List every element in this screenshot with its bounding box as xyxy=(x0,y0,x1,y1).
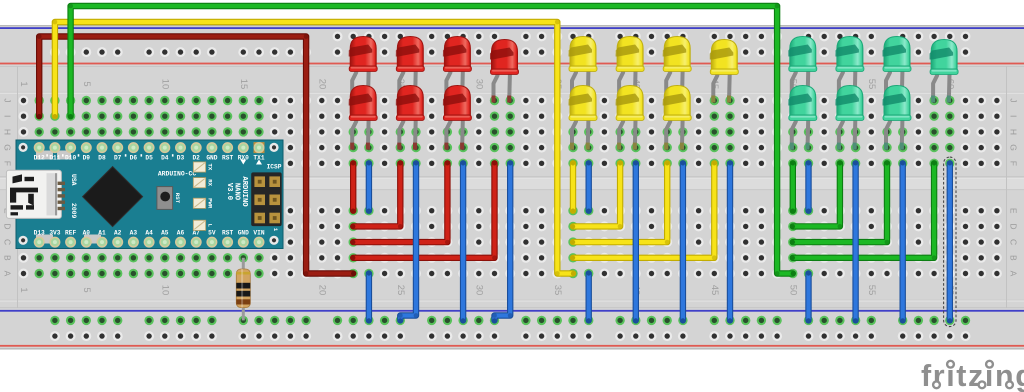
LED yellow 2 top (cols 39/40) xyxy=(616,37,645,103)
U1 pin pads row C (bottom) xyxy=(34,237,263,247)
svg-text:USA: USA xyxy=(70,174,77,186)
LED green 2 top (cols 53/54) xyxy=(835,37,864,103)
svg-text:C: C xyxy=(3,239,13,245)
svg-text:D12: D12 xyxy=(34,155,45,162)
svg-text:A5: A5 xyxy=(161,230,169,237)
svg-text:B: B xyxy=(1009,255,1019,261)
U1 reset button SW1 xyxy=(157,187,181,210)
svg-text:GND: GND xyxy=(238,230,249,237)
LED yellow 2 bottom (cols 39/40) xyxy=(616,86,645,150)
svg-text:55: 55 xyxy=(866,79,877,90)
svg-text:30: 30 xyxy=(473,285,484,296)
svg-text:3V3: 3V3 xyxy=(49,230,60,237)
wire dark red: nano D12 (I2) up, across top rail, down col19, to A22 xyxy=(37,34,356,276)
svg-text:D13: D13 xyxy=(34,230,45,237)
LED yellow 4 single (cols 45/46) xyxy=(710,40,739,103)
wire blue F23-E23 xyxy=(367,161,371,213)
svg-text:REF: REF xyxy=(65,230,76,237)
wire yellow feeder: nano D11 (I3) up, across y22, down col35, to A36 xyxy=(53,20,576,276)
wire red F22-E22 xyxy=(351,161,355,213)
top power rail red line xyxy=(0,63,1024,65)
LED green 2 bottom (cols 53/54) xyxy=(835,86,864,150)
resistor R1 (breadboard col 15) xyxy=(236,258,250,321)
U1 SMD LEDs TX RX PWR L xyxy=(193,162,213,231)
wire blue F54-rail54 xyxy=(853,161,857,322)
wire blue A51-rail51 xyxy=(806,271,810,322)
svg-text:J: J xyxy=(3,98,13,102)
svg-text:D9: D9 xyxy=(83,155,91,162)
LED red 3 top (cols 28/29) xyxy=(443,37,472,103)
Arduino Nano U1 xyxy=(16,140,283,249)
wire yellow F36-E36 xyxy=(571,161,575,213)
svg-text:E: E xyxy=(1009,208,1019,214)
wire yellow F45-B36 xyxy=(571,161,717,260)
molding seams xyxy=(0,66,1024,308)
svg-text:V3.0: V3.0 xyxy=(225,183,233,200)
wire blue F60-rail60 (selected, dashed outline) xyxy=(944,157,956,327)
svg-text:5: 5 xyxy=(81,81,92,86)
bottom power rail red line xyxy=(0,345,1024,347)
svg-text:15: 15 xyxy=(238,79,249,90)
top power rail blue line xyxy=(0,27,1024,29)
wire red F28-C22 xyxy=(351,161,450,244)
LED green 1 top (cols 50/51) xyxy=(788,37,817,103)
svg-text:C: C xyxy=(1009,239,1019,245)
wire blue F43-rail43 xyxy=(681,161,685,322)
main grid holes xyxy=(19,96,1002,279)
svg-text:D4: D4 xyxy=(161,155,169,162)
svg-text:25: 25 xyxy=(395,285,406,296)
svg-text:ARDUINO-CC: ARDUINO-CC xyxy=(158,171,197,178)
svg-text:2009: 2009 xyxy=(70,203,77,219)
fritzing logo xyxy=(921,359,1024,392)
wire red F25-D22 xyxy=(351,161,403,229)
svg-text:A4: A4 xyxy=(145,230,153,237)
svg-text:G: G xyxy=(3,144,13,151)
wire yellow F39-D36 xyxy=(571,161,623,229)
svg-text:1: 1 xyxy=(18,81,29,86)
LED red 2 bottom (cols 25/26) xyxy=(396,86,425,150)
svg-text:H: H xyxy=(3,129,13,135)
U1 RX/TX direction triangles xyxy=(240,160,262,165)
column numbers top xyxy=(18,79,955,90)
svg-text:55: 55 xyxy=(866,285,877,296)
svg-text:A: A xyxy=(3,271,13,277)
U1 ICSP header xyxy=(251,163,282,232)
svg-text:ICSP: ICSP xyxy=(267,163,282,170)
svg-text:B: B xyxy=(3,255,13,261)
svg-text:45: 45 xyxy=(709,285,720,296)
U1 USA 2009 silkscreen xyxy=(70,174,77,219)
svg-text:RST: RST xyxy=(174,193,181,204)
svg-text:I: I xyxy=(3,115,13,117)
svg-text:RST: RST xyxy=(222,155,233,162)
LED green 3 top (cols 56/57) xyxy=(883,37,912,103)
bottom rail holes xyxy=(50,316,971,341)
wire green F50-E50 xyxy=(791,161,795,213)
svg-text:20: 20 xyxy=(316,285,327,296)
U1 pin pads row G (top) xyxy=(34,142,264,153)
svg-text:D2: D2 xyxy=(192,155,200,162)
LED yellow 3 bottom (cols 42/43) xyxy=(663,86,692,150)
LED green 3 bottom (cols 56/57) xyxy=(883,86,912,150)
svg-text:F: F xyxy=(1009,161,1019,166)
wire blue F37-E37 xyxy=(587,161,591,213)
wire blue F57-rail57 xyxy=(901,161,905,322)
LED red 1 top (cols 22/23) xyxy=(349,37,378,103)
svg-text:D: D xyxy=(3,223,13,229)
wire blue F40-rail40 xyxy=(634,161,638,322)
svg-text:GND: GND xyxy=(206,155,217,162)
svg-text:D10: D10 xyxy=(65,155,76,162)
svg-text:J: J xyxy=(1009,98,1019,102)
wire blue A23-rail23 xyxy=(367,271,371,322)
svg-text:I: I xyxy=(1009,115,1019,117)
svg-text:5: 5 xyxy=(81,287,92,292)
LED yellow 3 top (cols 42/43) xyxy=(663,37,692,103)
column numbers bottom xyxy=(18,285,955,296)
LED red 4 single (cols 31/32) xyxy=(490,40,519,103)
svg-text:H: H xyxy=(1009,129,1019,135)
wire blue F51-E51 xyxy=(806,161,810,213)
U1 top pin labels xyxy=(34,154,265,161)
svg-text:D7: D7 xyxy=(114,155,122,162)
bottom power rail blue line xyxy=(0,310,1024,312)
svg-text:10: 10 xyxy=(159,285,170,296)
svg-text:35: 35 xyxy=(552,285,563,296)
svg-text:A1: A1 xyxy=(98,230,106,237)
svg-text:5V: 5V xyxy=(208,230,216,237)
svg-text:RX: RX xyxy=(206,179,213,186)
U1 microcontroller chip (diamond) xyxy=(83,167,143,227)
row letters left xyxy=(3,98,13,276)
svg-text:D5: D5 xyxy=(145,155,153,162)
LED green 4 single (cols 59/60) xyxy=(930,40,959,103)
svg-text:PWR: PWR xyxy=(206,198,213,209)
svg-text:D11: D11 xyxy=(49,155,60,162)
LED red 2 top (cols 25/26) xyxy=(396,37,425,103)
svg-text:D8: D8 xyxy=(98,155,106,162)
wire red F31-B22 xyxy=(351,161,497,260)
wire green feeder: nano D10 (I4) up, across y6, down col49, to A50 xyxy=(68,4,795,276)
svg-text:A2: A2 xyxy=(114,230,122,237)
svg-text:50: 50 xyxy=(787,285,798,296)
svg-text:10: 10 xyxy=(159,79,170,90)
left and right edge grooves xyxy=(17,66,1007,308)
LED yellow 1 top (cols 36/37) xyxy=(569,37,598,103)
svg-text:A6: A6 xyxy=(177,230,185,237)
U1 bottom pin labels xyxy=(34,230,265,237)
wire green F56-C50 xyxy=(791,161,890,244)
svg-text:A0: A0 xyxy=(83,230,91,237)
LED yellow 1 bottom (cols 36/37) xyxy=(569,86,598,150)
svg-text:VIN: VIN xyxy=(253,230,264,237)
wire green F59-B50 xyxy=(791,161,937,260)
svg-text:TX: TX xyxy=(206,164,213,171)
svg-text:A: A xyxy=(1009,271,1019,277)
svg-text:A3: A3 xyxy=(130,230,138,237)
svg-text:F: F xyxy=(3,161,13,166)
svg-text:30: 30 xyxy=(473,79,484,90)
wire blue F29-rail29 xyxy=(461,161,465,322)
svg-text:20: 20 xyxy=(316,79,327,90)
U1 mini-USB connector J1 xyxy=(6,170,65,218)
svg-text:G: G xyxy=(1009,144,1019,151)
svg-text:RST: RST xyxy=(222,230,233,237)
row letters right xyxy=(1009,98,1019,276)
svg-text:D3: D3 xyxy=(177,155,185,162)
LED red 3 bottom (cols 28/29) xyxy=(443,86,472,150)
wire blue F32-rail31 xyxy=(492,161,513,322)
center channel xyxy=(0,177,1024,191)
wire green F53-D50 xyxy=(791,161,843,229)
svg-text:D6: D6 xyxy=(130,155,138,162)
wire blue F46-rail46 xyxy=(728,161,732,322)
U1 ARDUINO NANO V3.0 silkscreen xyxy=(225,176,248,207)
LED green 1 bottom (cols 50/51) xyxy=(788,86,817,150)
svg-text:D: D xyxy=(1009,223,1019,229)
wire blue A37-rail37 xyxy=(587,271,591,322)
svg-text:1: 1 xyxy=(18,287,29,292)
LED red 1 bottom (cols 22/23) xyxy=(349,86,378,150)
wire blue F26-rail25 xyxy=(398,161,419,322)
top rail holes xyxy=(50,31,971,57)
wire yellow F42-C36 xyxy=(571,161,670,244)
